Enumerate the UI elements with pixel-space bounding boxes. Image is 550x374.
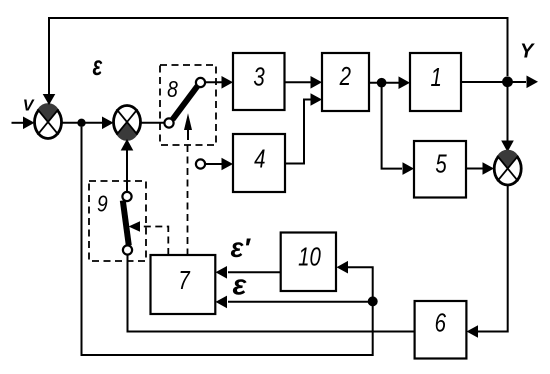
node B <box>377 78 387 88</box>
svg-text:6: 6 <box>435 308 446 337</box>
summing junction S2 <box>114 106 141 141</box>
node C <box>502 76 513 87</box>
switch 8 lower contact <box>196 159 205 168</box>
wire node C to S3 <box>501 87 514 152</box>
block 5 <box>414 141 466 198</box>
summing junction S3 <box>494 150 521 185</box>
wire block 1 to output Y <box>461 76 538 89</box>
block 2 <box>322 53 369 111</box>
wire block 4 to block 2 <box>285 93 322 163</box>
svg-text:4: 4 <box>254 144 265 173</box>
svg-text:3: 3 <box>253 62 264 91</box>
block 1 <box>410 53 461 111</box>
wire block 6 to switch 9 <box>128 255 415 332</box>
wire node A to node D (bottom run) <box>82 127 373 355</box>
wire node D to block 10 <box>337 261 373 297</box>
svg-text:ε′: ε′ <box>231 233 252 263</box>
wire node A to S2 <box>85 117 114 130</box>
wire block 10 to block 7 (epsilon prime) <box>216 266 281 279</box>
wire block 5 to S3 <box>466 162 494 175</box>
svg-text:2: 2 <box>339 62 351 91</box>
block 7 <box>151 255 216 314</box>
node A <box>77 119 85 127</box>
wire node B to block 5 <box>382 87 414 175</box>
svg-text:5: 5 <box>435 149 446 178</box>
summing junction S1 <box>35 103 62 138</box>
wire input V <box>12 117 35 130</box>
label 8 <box>167 76 178 102</box>
wire S3 to block 6 <box>467 185 508 338</box>
wire S1 to node A <box>62 122 82 124</box>
label 9 <box>97 191 108 217</box>
block 3 <box>233 53 285 110</box>
wire S2 to switch 8 <box>141 122 165 124</box>
wire feedback top <box>43 18 508 105</box>
block 4 <box>233 134 285 192</box>
switch 9 <box>89 181 146 261</box>
wire contact to block 4 <box>205 158 233 171</box>
svg-text:ε: ε <box>92 51 102 82</box>
svg-text:7: 7 <box>178 266 190 295</box>
svg-text:V: V <box>23 97 35 114</box>
block 10 <box>281 233 336 292</box>
svg-text:8: 8 <box>167 76 178 102</box>
dashed control block 7 to switch 9 <box>129 221 169 255</box>
svg-text:ε: ε <box>233 270 248 302</box>
dashed control block 7 to switch 8 <box>187 145 189 255</box>
wire block 3 to block 2 <box>285 76 323 89</box>
wire block 2 to block 1 <box>369 76 410 89</box>
switch 8 <box>160 65 216 145</box>
node D <box>368 296 378 306</box>
label epsilon top <box>92 51 102 82</box>
svg-text:10: 10 <box>298 243 321 272</box>
wire switch 8 to block 3 <box>205 76 233 89</box>
block 6 <box>415 301 467 359</box>
svg-text:Y: Y <box>520 41 535 63</box>
wire node D to block 7 (epsilon) <box>216 296 369 309</box>
wire switch 9 to S2 <box>121 139 134 192</box>
svg-text:9: 9 <box>97 191 108 217</box>
svg-text:1: 1 <box>431 63 442 92</box>
